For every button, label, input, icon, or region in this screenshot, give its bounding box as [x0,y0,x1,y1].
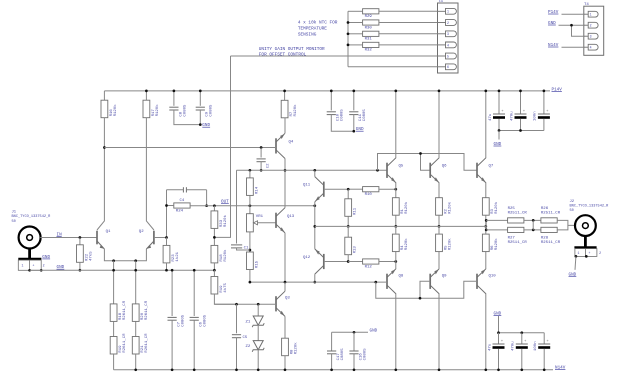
wire N14V rail [114,369,553,371]
wire R11 bottom [347,216,349,226]
junction [249,204,252,207]
wire C8 bottom [174,110,200,125]
svg-text:R10: R10 [365,193,373,197]
wire R13 bottom [347,255,349,262]
wire output node rail [315,225,486,227]
svg-text:C4: C4 [180,199,185,203]
wire Q10 collector to N14V [485,294,487,370]
svg-text:100n: 100n [534,341,538,351]
svg-text:470u: 470u [510,111,514,121]
junction [165,236,168,239]
junction [394,188,397,191]
resistor R25 [508,218,524,223]
junction [257,368,260,371]
wire Q8 collector to N14V [395,294,397,370]
wire C3 top [498,91,500,114]
junction [134,259,137,262]
junction [79,269,82,272]
svg-text:R120k: R120k [404,238,409,251]
svg-text:3: 3 [447,32,449,36]
transistor Q2 [146,231,154,249]
capacitor C3 [489,110,505,121]
resistor R12 [363,259,379,269]
wire Q8 emitter [395,252,397,269]
junction [498,129,501,132]
wire R32 to T3 pin 4 [379,44,438,46]
wire R29 to T3 pin 1 [379,10,438,12]
svg-text:5: 5 [447,54,449,58]
capacitor C15 [534,110,550,121]
svg-text:T4: T4 [584,3,589,7]
junction [484,225,487,228]
svg-text:R25: R25 [508,207,516,211]
capacitor C2 [257,159,266,162]
junction [112,259,115,262]
junction [235,303,238,306]
junction [134,368,137,371]
wire C12 bottom [521,349,523,370]
wire R1 bottom [395,215,397,226]
resistor R29 [363,9,379,19]
capacitor C11 [349,112,358,115]
svg-text:+: + [33,264,35,268]
svg-text:R120k: R120k [494,201,499,214]
wire GND stub [498,316,500,333]
wire C7 top [171,270,173,316]
svg-text:C2: C2 [267,163,271,168]
svg-text:R32: R32 [365,49,373,53]
transistor Q12 [315,249,324,274]
svg-text:R120k: R120k [223,214,228,227]
transistor Q13 [276,208,285,233]
connector T4 [584,3,604,55]
wire split vertical [485,220,487,230]
junction [438,90,441,93]
svg-text:R120k: R120k [447,238,452,251]
wire C13 top [520,91,522,114]
wire to T3 pin 6 [348,66,438,68]
svg-text:FOR OFFSET CONTROL: FOR OFFSET CONTROL [259,52,307,57]
junction [79,236,82,239]
junction [205,204,208,207]
wire R11 top [347,189,349,199]
wire Q5 emitter [395,183,397,198]
svg-text:6: 6 [447,65,449,69]
svg-text:2: 2 [599,251,601,255]
wire VR1 to R15 [249,232,251,252]
svg-text:3: 3 [590,35,592,39]
wire Q6 base drop [421,154,431,171]
svg-text:Q5: Q5 [399,165,404,169]
pin 1 of T4 [584,11,598,17]
wire C5 top [236,304,238,333]
svg-text:R2511_CR: R2511_CR [541,241,561,245]
wire C2 top [260,148,262,158]
wire C15 bottom [543,119,545,131]
resistor R26 [541,218,557,223]
wire cap top join [499,332,545,334]
svg-text:R120k: R120k [223,249,228,262]
resistor R1 [392,198,409,216]
pin 5 of T3 [438,53,457,59]
resistor R23 [163,245,180,263]
wire C14 top [498,333,500,344]
wire output monitor to T3 pin 5 [231,55,438,57]
wire tail 2 [135,261,137,304]
wire C8 top [173,91,175,106]
wire C6 bottom [193,320,195,370]
junction [213,204,216,207]
wire R24 left [167,205,174,207]
svg-text:TEMPERATURE: TEMPERATURE [298,27,327,32]
wire R22 bottom [79,262,81,270]
svg-text:C5: C5 [243,336,248,340]
transistor Q4 [276,133,285,158]
resistor R20 [132,300,149,321]
transistor Q10 [477,269,486,294]
wire R13 top [347,226,349,237]
wire Q13 emitter down [284,233,286,282]
wire C12 top [521,333,523,344]
resistor R4 [392,234,409,252]
resistor R8 [282,338,299,356]
wire Q4 collector down [284,159,286,208]
resistor R19 [211,277,228,295]
wire C14 bottom [498,349,500,370]
capacitor C10 [327,112,336,115]
svg-text:J2: J2 [570,200,575,204]
wire to bias line [214,294,236,304]
resistor R6 [482,234,499,252]
junction [193,269,196,272]
svg-text:R31: R31 [365,38,373,42]
wire C16 top [353,332,355,351]
wire R3 bottom [485,215,487,226]
wire OUT net [190,205,315,207]
resistor R24 [174,203,190,213]
wire C9 top [199,91,201,106]
svg-text:SENSING: SENSING [298,33,317,38]
junction [570,24,573,27]
junction [394,368,397,371]
wire C1 bottom jog [237,248,250,250]
junction [532,229,535,232]
wire Q10 emitter [485,252,487,269]
junction [313,225,316,228]
wire C3 bottom [498,119,500,131]
svg-text:C0805: C0805 [182,314,186,327]
svg-text:R14: R14 [255,186,259,194]
capacitor C9 [196,107,205,110]
wire R7 to Q4 emitter [284,118,286,134]
svg-text:Q13: Q13 [287,215,295,219]
svg-text:R2611_CR: R2611_CR [145,333,149,353]
transistor Q7 [477,158,486,183]
transistor Q5 [387,158,396,183]
capacitor C14 [488,340,504,351]
resistor R21 [132,333,149,354]
svg-text:R120k: R120k [494,238,499,251]
wire to R32 [348,44,363,46]
junction [199,123,202,126]
svg-text:Q7: Q7 [489,165,494,169]
wire R23 top [166,238,168,246]
svg-text:R2511_CR: R2511_CR [508,241,528,245]
svg-text:J1: J1 [12,211,17,215]
wire C13 bottom [520,119,522,131]
wire BNC gnd [30,269,42,271]
svg-text:R120k: R120k [113,104,118,117]
junction [347,260,350,263]
svg-text:R120k: R120k [404,201,409,214]
wire N14V to T4 pin4 [562,46,584,48]
wire to N rail [135,354,137,370]
wire Q7 collector to P14V [485,91,487,158]
wire [249,195,251,213]
junction [257,303,260,306]
svg-text:Q10: Q10 [489,275,497,279]
wire IN net [40,237,97,239]
wire VR1 wiper to Q13 base [258,222,277,224]
transistor Q3 [276,291,285,316]
wire [213,270,215,276]
svg-text:4 x 10k NTC FOR: 4 x 10k NTC FOR [298,21,338,26]
capacitor C7 [168,317,177,320]
wire output monitor vertical [214,56,230,237]
svg-text:R11: R11 [354,207,358,215]
junction [497,331,500,334]
wire R22 top [79,238,81,245]
svg-text:4k75: 4k75 [223,282,228,292]
resistor R19 [110,333,127,354]
resistor R31 [363,31,379,41]
junction [165,204,168,207]
wire Q11 emitter to OUT to Q12 [314,202,316,249]
wire C10 top [330,91,332,111]
junction [313,204,316,207]
junction [347,21,350,24]
junction [171,368,174,371]
junction [438,368,441,371]
junction [260,146,263,149]
wire R7 top [284,91,286,100]
resistor R17 [143,100,160,118]
svg-text:C0805: C0805 [204,314,208,327]
capacitor C18 [534,340,550,351]
svg-text:R120k: R120k [293,104,298,117]
resistor R16 [101,100,118,118]
resistor R2 [436,198,453,216]
resistor R33 [211,211,228,229]
wire C10 bottom [331,115,354,132]
wire to R31 [348,33,363,35]
resistor R10 [363,187,379,197]
capacitor C17 [327,351,336,354]
svg-text:Q11: Q11 [303,184,311,188]
svg-text:Q4: Q4 [289,141,294,145]
wire cap top join [332,331,368,333]
wire C17 bottom [331,354,333,370]
junction [249,169,252,172]
wire feedback node left [166,190,168,238]
potentiometer VR1 [247,214,264,232]
junction [347,188,350,191]
junction [543,90,546,93]
junction [520,368,523,371]
wire R31 to T3 pin 3 [379,33,438,35]
wire Q6 emitter [438,183,440,198]
wire R2 bottom [438,215,440,226]
svg-text:R15: R15 [255,260,259,268]
pin 4 of T4 [584,44,598,50]
svg-text:1: 1 [447,10,449,14]
svg-text:R2611_CR: R2611_CR [145,300,149,320]
pin 2 of T3 [438,20,457,26]
svg-text:47k5: 47k5 [88,251,93,261]
resistor R18 [211,245,228,263]
junction [40,269,43,272]
capacitor C8 [169,107,178,110]
wire C7 bottom [171,320,173,370]
capacitor C13 [510,110,526,121]
wire Q5 collector to P14V [395,91,397,158]
diode Z1 [252,316,264,327]
svg-text:47u: 47u [489,113,493,121]
wire [213,228,215,245]
svg-text:R120k: R120k [155,104,160,117]
junction [193,368,196,371]
svg-text:Q12: Q12 [303,256,311,260]
svg-text:R13: R13 [354,246,358,254]
junction [313,281,316,284]
junction [313,169,316,172]
svg-text:4: 4 [447,43,449,47]
wire Q12 collector [314,274,316,282]
capacitor C4 [183,187,186,192]
junction [353,331,356,334]
junction [497,368,500,371]
wire GND to T4 pin3 [572,25,584,36]
junction [543,368,546,371]
junction [376,169,379,172]
wire R4 top [395,226,397,234]
junction [419,297,422,300]
capacitor C12 [512,340,528,351]
wire C6 top [193,270,195,316]
wire top bias line [237,169,388,171]
junction [352,90,355,93]
junction [485,219,488,222]
junction [498,90,501,93]
wire Q4 base line [104,147,276,149]
junction [347,32,350,35]
wire R5 top [438,226,440,234]
svg-text:Q3: Q3 [285,296,290,300]
junction [283,90,286,93]
wire R16 to Q1 collector [97,118,104,230]
connector J1 (BNC) [18,227,41,259]
svg-text:47u: 47u [488,343,492,351]
svg-text:Q2: Q2 [139,230,144,234]
wire C4 to OUT [206,190,208,206]
pin 3 of T4 [584,33,598,39]
junction [394,225,397,228]
pin 1 of T3 [438,8,457,14]
wire C1 column [236,170,238,243]
wire R14 top [249,170,251,178]
pin 6 of T3 [438,64,457,70]
wire GND to T4 pin2 [559,24,584,26]
svg-text:Z2: Z2 [246,345,251,349]
wire to R25 [486,219,507,221]
wire C4 left [167,189,184,191]
diode Z2 [252,341,264,352]
wire Q3 emitter to R8 [284,316,286,338]
svg-text:R28: R28 [541,237,549,241]
svg-text:50: 50 [570,209,574,213]
transistor Q9 [430,269,439,294]
junction [347,225,350,228]
junction [330,368,333,371]
wire base staircase [376,281,477,298]
svg-text:C0805: C0805 [183,104,187,117]
resistor R15 [247,252,260,270]
capacitor C1 [231,245,242,248]
junction [394,90,397,93]
wire to R10 [348,188,362,190]
wire C18 bottom [543,349,545,370]
junction [173,90,176,93]
svg-text:Z1: Z1 [246,321,251,325]
wire [213,206,215,211]
junction [28,269,31,272]
wire C18 top [543,333,545,344]
junction [484,368,487,371]
junction [284,368,287,371]
wire Q11 base to R10/R11 [324,188,348,190]
junction [284,281,287,284]
svg-text:100n: 100n [534,111,538,121]
svg-text:C0805: C0805 [363,348,367,361]
capacitor C5 [232,335,241,338]
svg-text:1: 1 [578,251,580,255]
svg-text:Q8: Q8 [399,275,404,279]
wire P14V rail [104,90,550,92]
junction [213,269,216,272]
resistor R11 [345,199,358,217]
wire C16 bottom [353,354,355,370]
wire R26 to J2 [557,220,575,225]
wire to R29 [348,10,363,12]
wire [135,321,137,336]
svg-text:R12: R12 [365,265,373,269]
junction [532,219,535,222]
svg-text:470u: 470u [512,341,516,351]
connector J2 (BNC) [574,215,596,247]
junction [330,90,333,93]
junction [575,255,578,258]
svg-text:C0805: C0805 [341,348,345,361]
svg-text:Q6: Q6 [442,165,447,169]
wire C11 bottom [353,115,355,132]
wire Q7 emitter [485,183,487,198]
svg-text:C0805: C0805 [341,109,345,122]
svg-text:R29: R29 [365,15,373,19]
junction [394,260,397,263]
junction [438,225,441,228]
resistor R30 [363,20,379,30]
svg-text:R24: R24 [176,209,184,213]
